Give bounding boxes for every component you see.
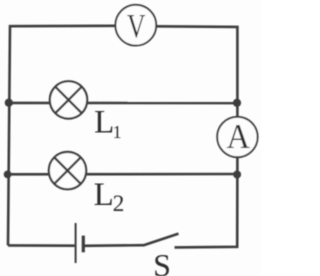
svg-text:1: 1 bbox=[113, 122, 122, 142]
voltmeter V bbox=[115, 5, 156, 46]
battery long plate (positive) bbox=[75, 223, 77, 263]
wire: top-right horizontal from voltmeter, right vertical down to ammeter bbox=[157, 26, 238, 117]
node: junction dot left L2 bbox=[4, 171, 12, 179]
svg-text:A: A bbox=[227, 117, 251, 156]
node: junction dot left L1 bbox=[5, 99, 13, 107]
ammeter A bbox=[217, 117, 257, 157]
battery short thick plate (negative) bbox=[82, 236, 85, 253]
lamp L2 (circle with X) bbox=[49, 152, 86, 189]
node: junction dot right L1 / ammeter top bbox=[233, 99, 241, 107]
svg-text:V: V bbox=[127, 8, 146, 45]
svg-text:2: 2 bbox=[113, 191, 125, 217]
wire: left vertical and top-left horizontal to voltmeter bbox=[8, 26, 115, 246]
switch S blade bbox=[143, 234, 178, 246]
svg-text:L: L bbox=[94, 105, 114, 141]
wire: L2 parallel branch bbox=[8, 173, 238, 176]
wire: right vertical below ammeter and bottom-right to switch contact bbox=[175, 157, 238, 247]
node: junction dot right L2 / ammeter bottom bbox=[233, 171, 241, 179]
lamp L1 (circle with X) bbox=[50, 81, 87, 118]
wire: battery to switch pivot bbox=[84, 244, 144, 247]
wire: bottom-left from battery to left corner bbox=[8, 244, 75, 247]
svg-text:L: L bbox=[94, 177, 114, 213]
svg-text:S: S bbox=[153, 247, 171, 276]
wire: L1 parallel branch bbox=[9, 102, 237, 105]
